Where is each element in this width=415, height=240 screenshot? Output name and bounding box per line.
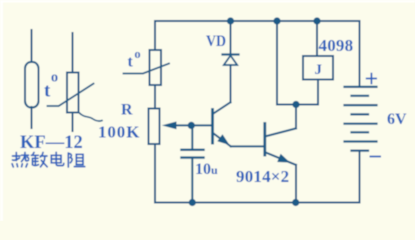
char re xyxy=(12,153,29,168)
wire jumper relay branch xyxy=(276,21,278,105)
transistor Q1 base bar xyxy=(211,110,214,144)
wire left border segments xyxy=(154,21,156,50)
transistor Q2 emitter xyxy=(265,152,296,165)
wire top rail xyxy=(155,20,360,22)
resistor R 100K xyxy=(149,109,160,145)
svg-text:6V: 6V xyxy=(387,111,407,128)
svg-text:VD: VD xyxy=(206,33,226,50)
capacitor C plates xyxy=(182,149,204,151)
wire relay top lead xyxy=(316,21,318,56)
svg-text:4098: 4098 xyxy=(319,36,354,55)
node dot top rail at VD xyxy=(227,17,234,24)
node dot jumper/Q2 collector xyxy=(292,101,299,108)
svg-text:KF—12: KF—12 xyxy=(20,133,83,153)
battery plus sign xyxy=(366,73,381,157)
arrow wiper into R xyxy=(162,122,177,130)
capacitor C bottom lead xyxy=(191,159,193,203)
legend thermistor symbol rect xyxy=(48,33,103,131)
wire bottom rail xyxy=(155,202,360,204)
diode VD cathode bar xyxy=(223,53,239,55)
legend thermistor KF-12 capsule body xyxy=(25,30,39,128)
battery short plates xyxy=(352,95,369,97)
battery B leads xyxy=(359,21,361,87)
transistor Q2 collector xyxy=(265,128,296,136)
svg-text:100K: 100K xyxy=(98,123,140,142)
node dot bottom rail at Q2 emitter xyxy=(292,199,299,206)
transistor Q1 collector xyxy=(213,102,231,114)
svg-text:R: R xyxy=(121,102,133,119)
node dot wiper/cap xyxy=(188,122,195,129)
svg-text:10u: 10u xyxy=(195,161,218,178)
arrow Q2 emitter xyxy=(277,154,290,163)
transistor Q2 base bar xyxy=(263,124,266,156)
capacitor C top lead xyxy=(191,125,193,148)
battery minus sign xyxy=(370,156,382,158)
wire Q1 emitter to Q2 base xyxy=(231,145,265,147)
char zu xyxy=(68,153,85,167)
battery long plates xyxy=(345,86,377,88)
thermistor diagonal with foot xyxy=(48,84,94,106)
squiggle leader xyxy=(79,113,102,122)
svg-text:9014×2: 9014×2 xyxy=(236,167,289,186)
node dot top rail at jumper xyxy=(273,17,280,24)
char dian xyxy=(51,152,64,165)
diode VD triangle xyxy=(224,56,237,66)
node dot top rail at relay xyxy=(313,17,320,24)
transistor Q1 emitter xyxy=(213,133,231,146)
label Chinese re min dian zu (thermistor) xyxy=(12,152,85,167)
node dot bottom rail at cap xyxy=(189,199,196,206)
char min xyxy=(31,153,47,167)
diode VD leads xyxy=(230,21,232,54)
svg-text:J: J xyxy=(315,62,323,78)
thermistor Rt diagonal with foot xyxy=(124,64,170,74)
thermistor Rt in circuit xyxy=(150,50,162,85)
relay J box xyxy=(303,56,333,80)
arrow Q1 emitter xyxy=(217,134,229,145)
wire wiper line to T1 base xyxy=(174,124,212,126)
